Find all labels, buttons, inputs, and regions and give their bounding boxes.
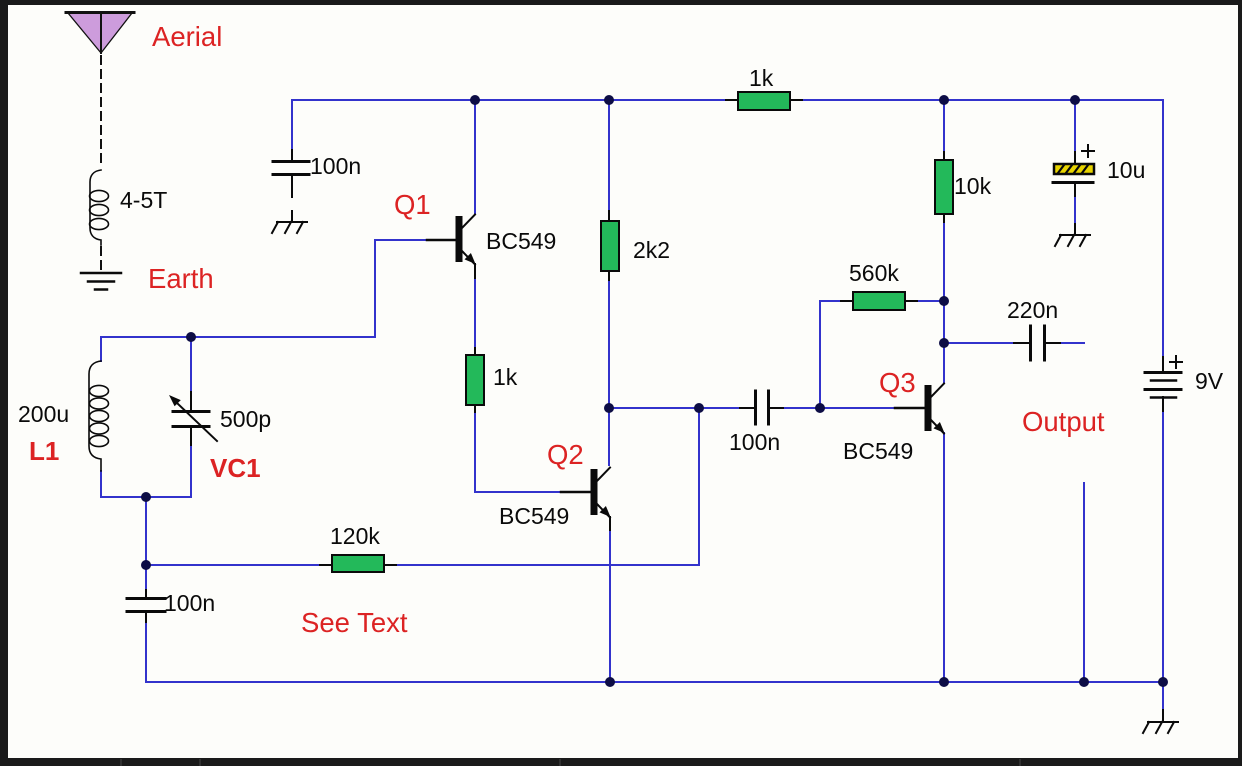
svg-text:220n: 220n (1007, 297, 1058, 323)
svg-text:Aerial: Aerial (152, 21, 222, 52)
wire 944 column mid (943, 222, 945, 343)
wire L1 top drop (100, 337, 102, 361)
wire mid horizontal right (783, 407, 895, 409)
svg-text:560k: 560k (849, 260, 899, 286)
resistor 120k (332, 555, 384, 572)
wire Q3 emitter column (943, 433, 945, 682)
wire Q2 collector riser (608, 408, 610, 465)
svg-text:100n: 100n (164, 590, 215, 616)
resistor 560k (853, 292, 905, 310)
ground earth symbol (81, 273, 121, 290)
inductor 4-5T (90, 170, 109, 245)
wire left column lower (145, 622, 147, 682)
svg-text:2k2: 2k2 (633, 237, 670, 263)
svg-text:BC549: BC549 (843, 438, 913, 464)
svg-text:120k: 120k (330, 523, 380, 549)
capacitor 10u electrolytic (1053, 145, 1094, 183)
svg-text:BC549: BC549 (486, 228, 556, 254)
wire left column upper (145, 497, 147, 590)
wire 120k row right (396, 564, 699, 566)
svg-text:200u: 200u (18, 401, 69, 427)
svg-text:9V: 9V (1195, 368, 1224, 394)
svg-text:100n: 100n (310, 153, 361, 179)
wire dashed to earth (100, 247, 102, 271)
svg-text:1k: 1k (749, 65, 774, 91)
capacitor 220n (1031, 326, 1045, 360)
transistor Q3 (895, 384, 945, 434)
wire top rail right (802, 99, 1163, 101)
wire 220n row right (1060, 342, 1084, 344)
wire Q1 base riser (375, 240, 427, 337)
wire Q1 collector column (474, 100, 476, 213)
svg-text:100n: 100n (729, 429, 780, 455)
svg-text:See Text: See Text (301, 607, 408, 638)
svg-text:1k: 1k (493, 364, 518, 390)
wire right column lower (1162, 411, 1164, 682)
wire mid horizontal left (609, 407, 740, 409)
svg-text:BC549: BC549 (499, 503, 569, 529)
wire VC1 top drop (190, 337, 192, 392)
wire Q2 emitter column (609, 530, 611, 682)
wire output hanging (1083, 483, 1085, 682)
transistor Q1 (427, 215, 476, 279)
wire VC1 bottom (190, 445, 192, 497)
pin stubs (black) (146, 100, 1163, 722)
wire ground stub bottom right (1162, 682, 1164, 710)
svg-text:Output: Output (1022, 406, 1105, 437)
capacitor C 100n bottom-left (127, 599, 165, 612)
wire L1 bottom (101, 471, 191, 497)
wire Q3 collector riser (943, 343, 945, 383)
aerial symbol (66, 13, 134, 169)
wire 220n row left (944, 342, 1014, 344)
variable capacitor VC1 (169, 395, 217, 441)
capacitor 100n coupling (756, 391, 769, 424)
svg-text:VC1: VC1 (210, 453, 261, 483)
wire 560k left leg (820, 301, 841, 408)
wire bottom rail (146, 681, 1163, 683)
wire 2k2 bottom column (608, 280, 610, 408)
svg-text:10k: 10k (954, 173, 992, 199)
wire 10u to ground (1074, 196, 1076, 224)
wire right column upper (1162, 100, 1164, 357)
svg-text:10u: 10u (1107, 157, 1145, 183)
wire 1k to Q2 base (475, 412, 561, 492)
svg-text:Q1: Q1 (394, 189, 431, 220)
ground hatched bottom-right (1143, 722, 1178, 733)
svg-text:L1: L1 (29, 436, 59, 466)
wire Q1 emitter column (474, 278, 476, 348)
svg-text:Earth: Earth (148, 263, 214, 294)
bottom bar dividers (121, 759, 1020, 766)
wire riser to 120k (698, 408, 700, 565)
svg-text:4-5T: 4-5T (120, 187, 167, 213)
wire 120k row left (146, 564, 320, 566)
inductor L1 (89, 361, 109, 471)
svg-text:Q2: Q2 (547, 439, 584, 470)
resistor 2k2 (601, 221, 619, 271)
wire 2k2 top column (608, 100, 610, 211)
wire tank loop top (101, 336, 375, 338)
svg-text:Q3: Q3 (879, 367, 916, 398)
resistor 1k Q1 emitter (466, 355, 484, 405)
battery 9V (1145, 356, 1182, 398)
wire C1 drop (291, 100, 293, 150)
ground hatched at C 100n (272, 222, 307, 233)
resistor 1k top (738, 92, 790, 110)
capacitor C 100n top-left (273, 162, 309, 175)
resistor 10k (935, 160, 953, 214)
wire top rail left (292, 99, 726, 101)
ground hatched at 10u (1055, 235, 1090, 246)
wire 560k right leg (917, 300, 944, 302)
wire 10k top (943, 100, 945, 152)
wire 10u drop (1074, 100, 1076, 152)
svg-text:500p: 500p (220, 406, 271, 432)
transistor Q2 (561, 468, 611, 531)
